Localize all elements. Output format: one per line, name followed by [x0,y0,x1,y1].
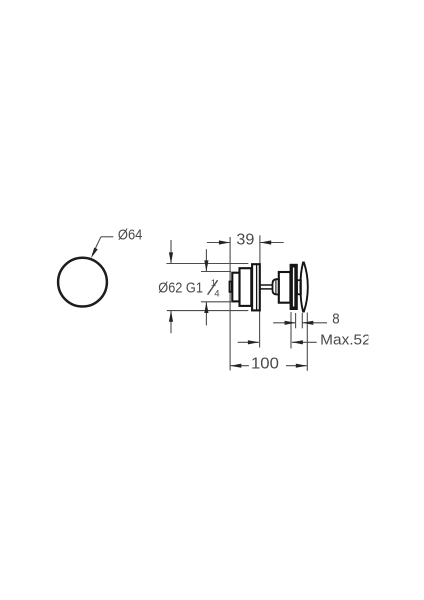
node thread nub [230,282,232,292]
wire 39 dim line right [260,242,284,244]
svg-text:100: 100 [251,356,279,373]
wire 8 extension right [301,313,303,328]
node arrow G1¼ bottom [204,302,208,313]
wire 100 dim line left [230,365,249,367]
node main body [240,268,252,306]
wire G1¼ arrow stem top [205,249,207,271]
node arrow 100 left [230,364,241,368]
wire Ø62 top extension [166,263,248,265]
wire G1¼ top extension [201,271,231,273]
wire left extension line [229,237,231,370]
wire G1¼ arrow stem bottom [205,302,207,325]
node dome cap [300,262,307,311]
node white clip over 2 [368,330,388,350]
wire Max dim line left [238,341,259,343]
node thread cylinder [232,273,239,302]
wire 39 dim line left [207,242,230,244]
wire 8 extension left [295,313,297,328]
node arrow 8 left [285,321,296,325]
wire plate-left extension [290,312,292,349]
node ball connector [273,279,279,294]
svg-text:4: 4 [214,289,219,300]
wire G1¼ bottom extension [201,301,231,303]
wire 8 dim line left [273,322,295,324]
wire Ø62 bottom extension [167,310,249,312]
wire right extension line upper [259,235,261,263]
wire dome apex extension [306,313,308,371]
node plate white sliver [293,268,295,307]
svg-text:Max.52: Max.52 [320,332,371,348]
node flange inner line [256,265,258,310]
node flange [252,264,260,310]
node ball inner line [275,279,277,294]
node arrow G1¼ top [204,260,208,271]
node arrow Max right [292,340,303,344]
node circle knob top view [58,258,107,307]
wire stem top [260,284,273,286]
node label fraction slash [208,280,218,294]
wire Ø62 arrow stem top [170,240,172,263]
node plate [290,264,298,310]
wire stem bottom [260,288,273,290]
svg-text:Ø62 G1: Ø62 G1 [158,280,203,297]
node hub [297,280,301,294]
svg-text:Ø64: Ø64 [118,228,142,244]
wire 100 dim line right [286,365,307,367]
node right cylinder [279,272,291,303]
node arrow Max left [248,340,259,344]
wire leader Ø64 diagonal [93,237,101,255]
node arrow 39 right [260,240,271,244]
svg-text:8: 8 [332,311,339,327]
wire 8 dim line right [302,322,327,324]
node arrow 100 right [296,364,307,368]
wire Max dim line right [292,341,317,343]
node arrow 8 right [302,321,313,325]
svg-text:39: 39 [236,232,254,249]
wire Ø62 arrow stem bottom [170,311,172,333]
wire leader Ø64 horizontal [101,236,113,238]
wire extension below flange [259,312,261,348]
node arrow Ø62 bottom [169,311,173,322]
node arrow 39 left [219,240,230,244]
node arrow Ø62 top [169,252,173,263]
node arrow leader tip [91,248,98,259]
